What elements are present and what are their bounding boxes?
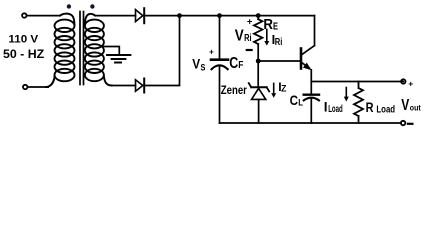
svg-text:V: V <box>235 28 245 45</box>
node dot CF top <box>217 13 222 18</box>
current arrow ILoad <box>344 88 349 102</box>
node dot RE top <box>256 13 261 18</box>
diode D2 <box>136 79 145 93</box>
svg-text:Ri: Ri <box>275 37 283 48</box>
wire emitter drop <box>310 70 312 94</box>
svg-text:Zener: Zener <box>221 83 247 97</box>
svg-text:S: S <box>201 62 206 73</box>
capacitor CF <box>211 60 228 69</box>
svg-text:C: C <box>290 92 298 108</box>
capacitor CL <box>304 95 319 101</box>
svg-text:Z: Z <box>281 83 287 93</box>
bottom rail <box>220 122 401 124</box>
transformer core <box>79 12 81 85</box>
resistor RLoad <box>354 82 363 124</box>
wire D2 to riser <box>144 16 179 86</box>
terminal output plus <box>401 79 405 83</box>
svg-text:E: E <box>273 21 278 32</box>
svg-text:V: V <box>401 97 410 114</box>
minus sign output <box>408 123 413 125</box>
terminal output minus <box>401 121 405 125</box>
wire collector <box>314 16 316 46</box>
wire top rail <box>144 15 314 17</box>
resistor RE <box>254 16 262 44</box>
wire base lead <box>258 60 300 62</box>
svg-text:+: + <box>247 17 253 28</box>
transformer primary winding <box>45 14 75 87</box>
terminal input bottom <box>23 85 27 89</box>
svg-text:out: out <box>410 103 421 112</box>
diode D1 <box>136 8 145 23</box>
node dot riser <box>177 13 182 18</box>
svg-text:+: + <box>408 78 413 88</box>
svg-text:R: R <box>263 16 273 33</box>
current arrow IZ <box>271 83 276 97</box>
wire CF branch upper <box>219 16 221 59</box>
wire CF to bottom rail <box>219 67 221 124</box>
ground <box>107 55 130 63</box>
wire secondary bottom to diode D2 <box>112 85 136 87</box>
current arrow IRi <box>264 30 269 46</box>
svg-text:V: V <box>192 56 200 72</box>
svg-text:Load: Load <box>376 105 395 116</box>
wire input bottom <box>28 86 48 88</box>
svg-text:I: I <box>324 100 328 115</box>
phasing dot secondary <box>90 4 94 8</box>
svg-text:R: R <box>366 100 374 115</box>
zener diode <box>249 83 270 99</box>
svg-text:Ri: Ri <box>244 33 252 44</box>
svg-text:110 V: 110 V <box>8 33 39 45</box>
svg-text:F: F <box>238 60 243 71</box>
wire secondary top to diode <box>95 15 136 17</box>
minus sign VRi <box>247 49 252 51</box>
svg-text:L: L <box>298 98 303 109</box>
wire CL to bottom rail <box>310 99 312 123</box>
wire zener to bottom rail <box>258 99 260 123</box>
node dot base junction <box>256 59 261 64</box>
svg-text:C: C <box>229 55 238 72</box>
terminal input top <box>22 13 26 17</box>
phasing dot primary <box>67 4 71 8</box>
transformer secondary winding <box>85 14 112 86</box>
svg-text:Load: Load <box>328 104 343 115</box>
wire output rail <box>311 81 403 83</box>
ground tap wire <box>104 47 119 56</box>
wire RE to zener <box>257 44 259 86</box>
svg-text:+: + <box>209 48 214 57</box>
transistor Q1 <box>301 46 315 71</box>
svg-text:50 - HZ: 50 - HZ <box>3 47 44 61</box>
wire input top <box>27 15 60 17</box>
